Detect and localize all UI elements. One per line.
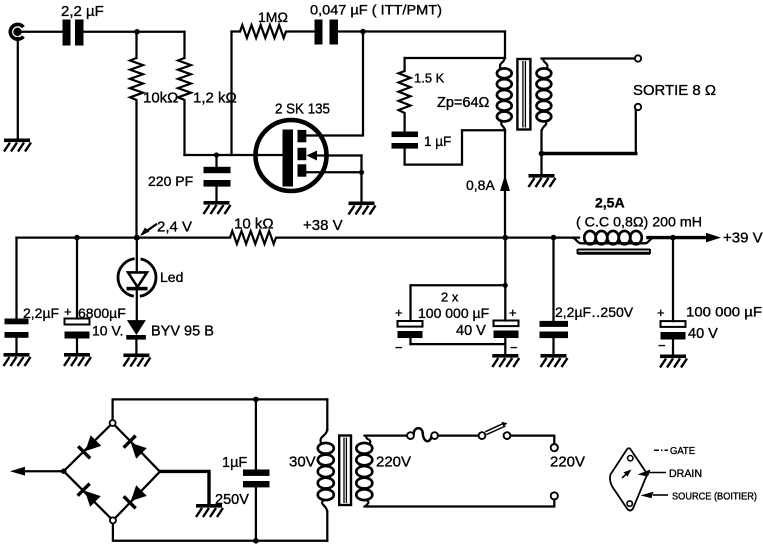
ground under 2,2uF <box>4 353 31 366</box>
wire source to ground <box>360 172 362 200</box>
node dot 1uF top <box>253 397 259 403</box>
svg-text:+38 V: +38 V <box>303 217 343 234</box>
svg-text:220V: 220V <box>550 454 585 471</box>
ground under C9 <box>541 354 568 367</box>
wire secondary top to fuse <box>365 434 408 436</box>
output terminal bottom <box>635 104 641 110</box>
arrow bridge output <box>10 467 67 476</box>
svg-text:1µF: 1µF <box>222 455 247 471</box>
label GATE with leader <box>654 445 695 457</box>
wire jack to C1 <box>22 31 62 33</box>
capacitor C5 2,2uF left <box>5 238 29 352</box>
node dot 2,2uF250V rail <box>551 235 557 241</box>
bridge top wire <box>113 399 328 420</box>
capacitor C4 1uF <box>392 132 419 149</box>
rail +38V section <box>279 236 579 238</box>
node dot 1uF bottom <box>253 538 259 544</box>
svg-text:+: + <box>64 304 72 319</box>
svg-text:2,2µF: 2,2µF <box>23 305 59 321</box>
ground under jack <box>4 139 31 152</box>
wire jack down to ground <box>17 38 19 138</box>
output terminal top <box>635 55 641 61</box>
svg-text:2 SK 135: 2 SK 135 <box>275 102 330 118</box>
svg-text:DRAIN: DRAIN <box>669 468 702 480</box>
node dot 0,8A rail <box>503 235 509 241</box>
label DRAIN with arrow <box>638 468 703 480</box>
zobel bottom wire <box>405 130 505 164</box>
TO-3 package outline <box>610 448 646 510</box>
transformer T1 primary winding <box>497 56 512 131</box>
svg-text:100 000 µF: 100 000 µF <box>418 305 489 321</box>
capacitor C3 220PF <box>204 155 231 201</box>
label SOURCE with arrow <box>641 492 758 503</box>
svg-text:SORTIE 8 Ω: SORTIE 8 Ω <box>633 82 716 99</box>
gate wire <box>185 154 285 156</box>
wire switch to terminal <box>511 436 555 444</box>
transistor Q1 2SK135 <box>256 120 362 191</box>
bridge bottom wire <box>113 524 327 541</box>
svg-text:1,2 kΩ: 1,2 kΩ <box>193 90 237 107</box>
svg-text:100 000 µF: 100 000 µF <box>686 305 762 320</box>
ground under 220pF <box>204 201 231 214</box>
bridge right node wire to ground <box>160 471 209 503</box>
diode D2 BYV95B <box>126 320 146 352</box>
switch S1 <box>479 422 511 439</box>
diode D3 top-left <box>77 435 102 460</box>
wire primary down rail (0,8A) <box>504 130 506 238</box>
svg-text:10 kΩ: 10 kΩ <box>234 216 274 233</box>
svg-text:220 PF: 220 PF <box>148 173 193 189</box>
svg-text:40 V: 40 V <box>688 326 718 342</box>
rail right of inductor <box>648 236 707 239</box>
diode D6 bottom-right <box>122 485 147 510</box>
wire output bottom terminal <box>635 111 637 154</box>
wire second cap <box>504 285 506 320</box>
wire bottom terminal to secondary <box>365 500 555 507</box>
transformer T1 core <box>517 59 530 130</box>
transformer T2 primary winding 30V <box>318 428 334 512</box>
svg-text:0,047 µF ( ITT/PMT): 0,047 µF ( ITT/PMT) <box>310 3 442 18</box>
svg-text:−: − <box>395 340 403 355</box>
arrow +39V <box>706 233 721 243</box>
resistor R2 1,2k (vertical) <box>178 32 191 155</box>
svg-text:10kΩ: 10kΩ <box>143 90 178 107</box>
label 2,4V with pointer <box>140 219 192 237</box>
ground under 6800uF <box>64 353 91 366</box>
svg-text:2,2µF‥250V: 2,2µF‥250V <box>555 304 634 320</box>
svg-text:2,2 µF: 2,2 µF <box>61 3 104 20</box>
inductor L1 200mH <box>572 231 654 254</box>
wire ground stub secondary <box>540 154 542 174</box>
node dot 2,4V <box>134 235 140 241</box>
capacitor C9 2,2uF 250V <box>540 238 569 353</box>
node dot secondary bottom <box>539 151 545 157</box>
svg-text:+: + <box>657 305 665 320</box>
svg-text:220V: 220V <box>376 454 411 471</box>
transformer T1 primary wire top <box>504 32 506 59</box>
LED D1 <box>118 238 156 320</box>
svg-text:30V: 30V <box>289 454 316 471</box>
capacitor C2 0,047uF <box>315 20 339 45</box>
terminal 220V top <box>551 444 558 451</box>
capacitor C10 100000uF right <box>661 238 686 354</box>
zobel top wire <box>405 57 505 59</box>
svg-text:+39 V: +39 V <box>723 230 763 247</box>
svg-text:1MΩ: 1MΩ <box>258 9 288 25</box>
svg-text:2 x: 2 x <box>441 290 459 305</box>
svg-text:6800µF: 6800µF <box>78 305 126 321</box>
svg-text:( C.C 0,8Ω) 200 mH: ( C.C 0,8Ω) 200 mH <box>576 214 702 230</box>
svg-text:250V: 250V <box>215 492 249 508</box>
bridge arms <box>64 423 160 520</box>
capacitor C7 100000uF A <box>398 321 423 344</box>
wire body to source <box>360 156 362 173</box>
node dot 100000uF right <box>670 235 676 241</box>
arrow 0,8A <box>500 175 510 191</box>
node dot 6800uF <box>74 235 80 241</box>
svg-text:Zp=64Ω: Zp=64Ω <box>437 95 490 111</box>
svg-text:1 µF: 1 µF <box>424 134 451 149</box>
node dot 220pF tap <box>214 152 219 157</box>
capacitor C8 100000uF B <box>494 321 519 354</box>
wire fuse to switch <box>438 434 479 436</box>
svg-text:−: − <box>658 338 666 353</box>
svg-text:2,5A: 2,5A <box>595 195 625 211</box>
svg-text:0,8A: 0,8A <box>466 177 495 193</box>
transformer T1 secondary winding <box>537 58 552 131</box>
wire to first 100000uF <box>411 285 506 321</box>
node dot drain junction <box>360 29 366 35</box>
capacitor C1 2,2uF <box>63 20 84 46</box>
diode D5 bottom-left <box>76 482 101 507</box>
svg-text:+: + <box>509 305 517 320</box>
wire thick to output bottom <box>542 152 636 155</box>
transformer T2 primary lead bottom <box>326 512 328 541</box>
capacitor C11 1uF 250V <box>243 399 270 540</box>
node dot top of R1 <box>134 29 140 35</box>
svg-text:1.5 K: 1.5 K <box>414 71 445 86</box>
resistor R4 1.5K <box>399 58 411 132</box>
capacitor C6 6800uF <box>65 238 90 352</box>
ground under source <box>349 202 376 215</box>
terminal 220V bottom <box>551 492 558 499</box>
fuse F1 <box>407 428 438 441</box>
svg-text:40 V: 40 V <box>456 323 486 339</box>
ground under C8 <box>492 354 519 367</box>
ground under BYV <box>123 354 150 367</box>
ground under C10 <box>660 355 687 368</box>
rail 2,4V left section <box>17 236 231 238</box>
wire C2 to transformer <box>338 30 505 32</box>
node 100000uF pair <box>503 283 508 288</box>
input jack J1 <box>10 24 23 39</box>
svg-text:10 V.: 10 V. <box>92 323 123 339</box>
bridge node top circle <box>110 420 116 426</box>
bridge node bottom circle <box>110 517 116 523</box>
node dot source junction <box>359 170 364 175</box>
wire source <box>306 171 362 173</box>
svg-text:SOURCE (BOITIER): SOURCE (BOITIER) <box>672 492 757 503</box>
diode D4 top-right <box>122 434 147 459</box>
resistor R5 10k (rail) <box>230 231 279 244</box>
wire caps bottom <box>411 343 506 345</box>
wire 100000uF pair down <box>504 238 506 286</box>
ground under secondary <box>529 174 556 187</box>
ground bridge <box>196 504 223 517</box>
transformer T2 secondary winding 220V <box>356 436 372 507</box>
resistor R3 1M (feedback) <box>232 25 315 155</box>
svg-text:−: − <box>510 340 518 355</box>
wire secondary bottom <box>540 131 542 154</box>
transformer T2 core <box>339 436 351 506</box>
svg-text:GATE: GATE <box>670 445 695 457</box>
wire secondary top to output <box>542 57 635 59</box>
resistor R1 10k (vertical) <box>130 32 143 238</box>
transformer T2 primary lead top <box>326 399 328 430</box>
wire C1 to R2 top <box>84 31 185 33</box>
wire drain junction down <box>306 32 363 136</box>
svg-text:2,4 V: 2,4 V <box>157 219 192 236</box>
svg-text:+: + <box>395 305 403 320</box>
svg-text:BYV 95 B: BYV 95 B <box>151 324 214 340</box>
svg-text:Led: Led <box>160 269 183 285</box>
